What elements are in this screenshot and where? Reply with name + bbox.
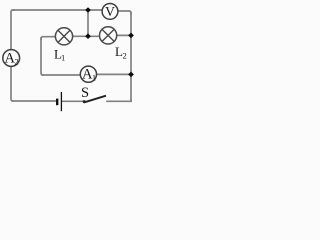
junction dot top (88,10) [85,7,91,13]
wire lamp-rail right segment [117,34,131,36]
battery [57,92,61,111]
junction dot lamp-rail right (131,35) [128,33,134,39]
svg-text:1: 1 [61,53,65,63]
wire A1 rail right [96,73,131,75]
wire mid vertical x=88 [87,10,89,36]
wire lamp-rail between L1 and L2 [73,35,100,37]
label L2 [115,44,127,61]
wire lamp-rail left segment [41,37,55,39]
svg-text:1: 1 [92,73,96,83]
wire bottom to battery [13,100,57,102]
wire left vertical upper (A2 to top-left corner) [11,10,14,50]
junction dot A1-rail right (131,74) [128,72,134,78]
svg-text:2: 2 [123,51,127,61]
label L1 [54,47,65,63]
junction dot lamp-rail left (88,36) [85,33,91,39]
voltmeter V [102,3,118,19]
wire top rail [13,9,102,11]
lamp L2 [100,27,117,44]
svg-text:S: S [81,85,89,101]
svg-text:2: 2 [14,57,18,67]
ammeter A2 [3,50,20,67]
svg-text:V: V [105,4,115,19]
wire V to top-right corner [118,11,131,14]
wire A1 rail left [43,74,81,76]
ammeter A1 [80,66,96,83]
wire right vertical [130,13,132,101]
wire battery to switch [62,100,83,102]
lamp L1 [55,28,72,45]
wire drop vertical x=41 [41,38,43,75]
wire left vertical lower [11,66,13,101]
switch S [83,96,106,103]
wire switch to bottom-right corner [107,100,131,101]
